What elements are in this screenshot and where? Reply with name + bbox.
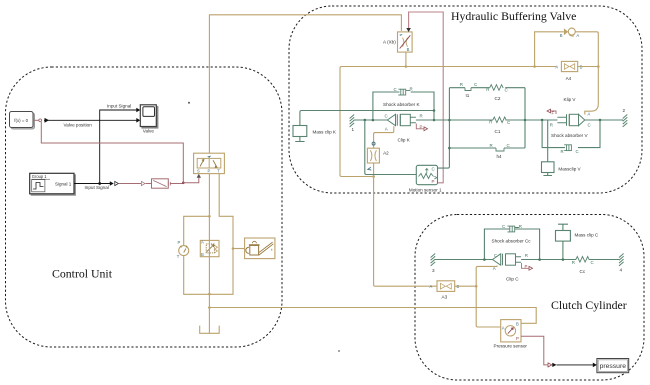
svg-text:Shock absorber K: Shock absorber K (383, 102, 420, 107)
svg-text:Mass clip C: Mass clip C (575, 233, 599, 238)
green network bottom branch with h4 (449, 143, 525, 159)
shock absorber V loop (542, 120, 600, 148)
svg-text:Cc: Cc (580, 269, 586, 274)
annotation dot 2 (338, 350, 340, 352)
fixed orifice A4 (555, 61, 582, 71)
svg-text:C: C (385, 114, 388, 119)
svg-text:C2: C2 (495, 96, 501, 101)
svg-text:A: A (201, 240, 204, 245)
svg-text:C: C (474, 82, 477, 87)
svg-text:A: A (576, 33, 579, 38)
fixed orifice A3 (430, 281, 460, 292)
svg-text:A: A (502, 325, 505, 330)
wire maroon converter to valve S port (176, 174, 201, 184)
wire green main line right section (541, 119, 558, 122)
check valve branch left (533, 32, 564, 68)
wire maroon F stub Klip V (547, 109, 556, 116)
signal builder block Group 1 / Signal 1 (30, 173, 76, 195)
wire tan Clip K A port to A2 (374, 126, 394, 148)
gauge circle block T/P (177, 240, 189, 259)
svg-text:C: C (505, 87, 508, 92)
pressure display block (597, 359, 629, 373)
svg-text:Hydraulic Buffering Valve: Hydraulic Buffering Valve (451, 9, 576, 23)
svg-text:R: R (490, 143, 493, 148)
svg-text:B: B (516, 322, 519, 327)
spring C2 icon (486, 85, 507, 102)
svg-text:P: P (178, 240, 181, 245)
variable orifice A2 (367, 148, 379, 170)
region Clutch Cylinder dashed box (415, 215, 644, 381)
wire maroon to converter (119, 181, 145, 185)
damper icon shock absorber K (394, 87, 413, 95)
green network left vertical (448, 88, 451, 150)
directional valve block (194, 153, 225, 173)
svg-text:Input Signal: Input Signal (85, 185, 109, 190)
wire tan valve P down (208, 174, 211, 241)
piston Klip V (mirrored) (550, 111, 591, 127)
green network right vertical (524, 88, 526, 148)
wire maroon P stub Clip K (416, 124, 427, 131)
svg-text:C: C (507, 120, 510, 125)
svg-text:C: C (588, 123, 591, 128)
svg-text:A2: A2 (383, 151, 389, 156)
svg-text:A: A (430, 284, 433, 289)
massclip V block (542, 162, 555, 176)
svg-text:Group 1: Group 1 (32, 174, 48, 179)
svg-text:R: R (486, 87, 489, 92)
svg-text:C: C (394, 87, 397, 92)
svg-text:R: R (410, 87, 413, 92)
svg-text:B: B (560, 33, 563, 38)
svg-text:P: P (516, 336, 519, 341)
svg-text:P: P (420, 124, 423, 129)
svg-text:R: R (550, 123, 553, 128)
svg-text:R: R (561, 149, 564, 154)
wire green main line left section (354, 119, 388, 122)
svg-text:I1: I1 (466, 93, 470, 98)
wire valve position (black) to Scope (44, 118, 140, 123)
svg-text:C: C (494, 253, 497, 258)
wire tan junction down to pressure sensor A (476, 286, 501, 327)
port 1 hatch (350, 115, 355, 127)
wire black to pressure display (552, 363, 597, 368)
svg-text:P: P (525, 264, 528, 269)
svg-text:B: B (407, 47, 410, 52)
svg-text:2: 2 (623, 108, 626, 113)
port 3 hatch (431, 254, 436, 266)
svg-text:Shock absorber V: Shock absorber V (551, 133, 588, 138)
mass clip C block (556, 224, 571, 259)
wire maroon pressure sensor P to display (521, 336, 552, 367)
shock absorber K loop (373, 92, 435, 121)
svg-text:R: R (489, 120, 492, 125)
svg-text:T: T (177, 254, 180, 259)
svg-text:C1: C1 (495, 129, 501, 134)
relief valve block (200, 240, 219, 257)
spring C1 icon (489, 117, 510, 134)
svg-text:R: R (460, 82, 463, 87)
wire green mass clip K to shock absorber loop (300, 109, 435, 125)
wire input signal branch up to Scope (black) (100, 108, 141, 184)
green network top branch with I1 and C2 (449, 87, 525, 89)
svg-text:B: B (201, 252, 204, 257)
port marker A2 top (372, 142, 375, 145)
wire green motion sensor C up to network (438, 148, 450, 168)
svg-text:Valve: Valve (143, 129, 155, 134)
port 2 hatch (623, 115, 628, 127)
wire tan A(Xb) B port down to bus (405, 52, 408, 68)
svg-text:Clip K: Clip K (398, 138, 411, 143)
wire tan branch to gauge circle (184, 216, 210, 245)
svg-text:Valve position: Valve position (64, 122, 93, 127)
damper icon shock absorber V (561, 145, 579, 154)
wire green piston R to port 4 with spring Cc (521, 258, 619, 261)
svg-text:Motion sensor 1: Motion sensor 1 (409, 187, 442, 192)
svg-text:R: R (420, 113, 423, 118)
damper icon shock absorber Cc (502, 224, 522, 232)
svg-text:1: 1 (352, 127, 355, 132)
motion sensor block (416, 165, 437, 184)
svg-text:S: S (197, 168, 200, 173)
svg-text:A (Xb): A (Xb) (383, 40, 396, 45)
annotation dot (188, 102, 190, 104)
variable orifice A(Xb) (398, 32, 413, 52)
wire tan A2 down to A3 (374, 163, 437, 286)
wire tan gauge down to bottom junction (184, 256, 210, 295)
junction tan bottom (208, 240, 211, 309)
svg-text:C: C (502, 224, 505, 229)
svg-text:Pressure sensor: Pressure sensor (494, 343, 528, 348)
simulink-PS converter block (146, 179, 177, 188)
wire maroon P stub Clip C (522, 263, 533, 270)
svg-text:A: A (385, 127, 388, 132)
svg-text:A: A (555, 64, 558, 69)
port 4 hatch (619, 254, 624, 266)
tank symbol (200, 308, 220, 334)
wire green Klip V C to port 2 (585, 119, 623, 122)
inertia I1 icon (460, 82, 477, 98)
svg-text:Klip V: Klip V (564, 97, 577, 102)
svg-text:R: R (525, 253, 528, 258)
check valve (560, 28, 580, 38)
piston Clip C (493, 253, 528, 271)
svg-text:Input Signal: Input Signal (107, 103, 131, 108)
wire tan long horizontal to clutch cylinder (209, 308, 536, 324)
wire tan valve top up and over to A(Xb) (209, 15, 401, 153)
wire signal builder output (black) (74, 181, 118, 186)
wire green main line middle section with C1 (416, 119, 541, 122)
wire tan to oil can block (233, 248, 245, 250)
svg-text:Shock absorber Cc: Shock absorber Cc (492, 239, 532, 244)
scope block Valve (140, 105, 158, 134)
svg-text:Signal 1: Signal 1 (55, 182, 72, 187)
wire solver config output (maroon) (33, 119, 42, 122)
svg-text:3: 3 (432, 268, 435, 273)
svg-text:C: C (432, 167, 435, 172)
svg-text:F: F (552, 111, 555, 116)
wire maroon from solver junction down and right (41, 122, 183, 183)
mass clip K block (293, 126, 307, 142)
svg-text:A3: A3 (442, 295, 448, 300)
svg-text:4: 4 (620, 268, 623, 273)
svg-text:pressure: pressure (600, 363, 627, 370)
wire tan A3 B to junction and Clip C A (455, 266, 497, 288)
svg-text:C: C (507, 143, 510, 148)
shock absorber Cc loop (484, 229, 539, 260)
wire green main clutch line (435, 258, 493, 261)
svg-text:P: P (208, 168, 211, 173)
wire green to Massclip V (547, 120, 549, 162)
svg-text:Clutch Cylinder: Clutch Cylinder (551, 298, 627, 312)
svg-text:A: A (588, 111, 591, 116)
svg-text:R: R (572, 260, 575, 265)
svg-text:A4: A4 (566, 76, 572, 81)
region Control Unit dashed box (6, 67, 283, 347)
svg-text:Control Unit: Control Unit (52, 267, 113, 281)
svg-text:f(x) = 0: f(x) = 0 (14, 118, 28, 123)
wire tan hydraulic bus (340, 67, 557, 178)
wire green branch to motion sensor (365, 120, 417, 175)
piston Clip K (385, 113, 423, 131)
wire check valve to right vertical (575, 32, 599, 115)
svg-text:C: C (591, 260, 594, 265)
wire tan valve T down and to tank loop (209, 174, 234, 295)
wire maroon control signal from motion sensor to A(Xb) (406, 12, 443, 183)
svg-text:Mass clip K: Mass clip K (313, 130, 337, 135)
svg-text:C: C (576, 149, 579, 154)
region Hydraulic Buffering Valve dashed box (289, 6, 642, 193)
wire A4 B to vertical (578, 66, 599, 68)
svg-text:R: R (519, 224, 522, 229)
svg-text:Clip C: Clip C (506, 276, 519, 281)
svg-text:h4: h4 (497, 154, 503, 159)
pressure sensor block (501, 320, 521, 342)
svg-text:Massclip V: Massclip V (558, 166, 581, 171)
spring Cc icon (572, 257, 594, 274)
solver configuration block f(x)=0 (10, 112, 35, 130)
oil can block (hydraulic fluid) (245, 238, 275, 259)
svg-text:T: T (217, 168, 220, 173)
svg-text:P: P (432, 179, 435, 184)
